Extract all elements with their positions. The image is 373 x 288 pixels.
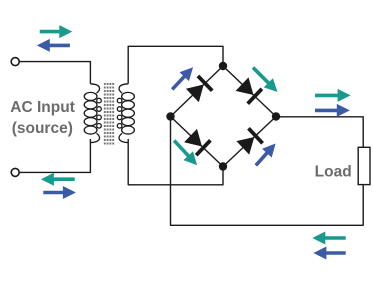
arrow: AC bottom forward (blue) bbox=[43, 186, 76, 199]
diode D2 (top node to right node) bbox=[236, 77, 262, 103]
wire: negative output (left node) down and to load bottom bbox=[171, 117, 364, 226]
node: bridge bottom junction bbox=[219, 162, 227, 170]
svg-text:AC Input: AC Input bbox=[10, 99, 75, 116]
wire: bridge diamond bbox=[171, 66, 277, 167]
node: bridge top junction bbox=[219, 62, 227, 70]
arrow: current through D3 (teal) bbox=[173, 139, 197, 165]
wire: positive output (right node) to load top bbox=[276, 117, 363, 148]
arrow: load current positive half (teal) bbox=[315, 89, 351, 102]
arrow: return current positive half (teal) bbox=[312, 232, 345, 245]
transformer T1 secondary winding bbox=[117, 84, 134, 143]
arrow: current through D4 (blue) bbox=[255, 144, 276, 167]
wire: secondary bottom to bridge bottom node bbox=[128, 139, 223, 185]
wire: secondary top to bridge top node bbox=[128, 46, 223, 84]
transformer T1 primary winding bbox=[84, 84, 101, 143]
diode D1 (left node to top node) bbox=[186, 76, 212, 102]
arrow: AC top return (blue) bbox=[37, 39, 70, 52]
terminal: AC input top bbox=[11, 58, 19, 66]
node: bridge right junction bbox=[272, 112, 280, 120]
wire: top AC terminal to transformer primary bbox=[20, 62, 91, 84]
svg-text:Load: Load bbox=[315, 164, 352, 181]
arrow: AC bottom return (teal) bbox=[41, 173, 75, 186]
resistor: Load bbox=[358, 147, 370, 184]
diode D4 (bottom node to right node) bbox=[236, 128, 262, 154]
arrow: current through D1 (blue) bbox=[171, 67, 193, 90]
wire: transformer primary bottom to bottom AC terminal bbox=[20, 139, 91, 172]
arrow: load current negative half (blue) bbox=[315, 104, 350, 117]
arrow: current through D2 (teal) bbox=[252, 66, 278, 92]
svg-text:(source): (source) bbox=[12, 120, 73, 137]
terminal: AC input bottom bbox=[11, 168, 19, 176]
arrow: AC top forward (teal) bbox=[40, 25, 73, 38]
arrow: return current negative half (blue) bbox=[313, 247, 345, 260]
diode D3 (left node to bottom node) bbox=[184, 129, 210, 155]
node: bridge left junction bbox=[166, 112, 174, 120]
transformer T1 core bbox=[105, 83, 113, 146]
